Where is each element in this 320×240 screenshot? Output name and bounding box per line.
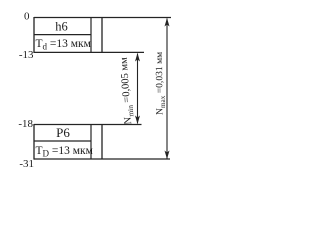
svg-text:TD =13 мкм: TD =13 мкм [36,145,94,158]
svg-text:Nmax =0,031 мм: Nmax =0,031 мм [154,52,167,115]
svg-text:h6: h6 [55,20,68,34]
svg-text:Nmin =0,005 мм: Nmin =0,005 мм [119,56,136,124]
svg-text:Td =13 мкм: Td =13 мкм [36,38,92,51]
svg-text:-13: -13 [19,49,34,61]
svg-text:-31: -31 [19,158,34,170]
svg-text:-18: -18 [18,118,33,130]
svg-text:0: 0 [24,10,30,22]
svg-text:P6: P6 [56,125,70,140]
